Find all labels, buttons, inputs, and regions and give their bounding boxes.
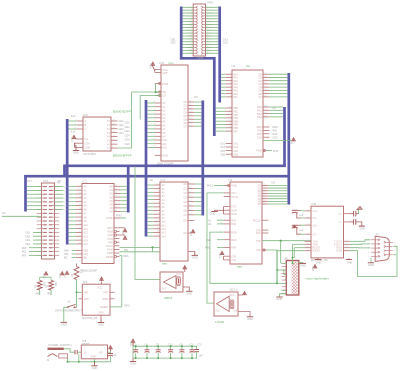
power VCC arrow R1 — [43, 272, 48, 279]
svg-text:CTS: CTS — [231, 206, 236, 209]
wire RWB to RAM WE — [120, 249, 161, 252]
IC3 G2A G2B to ground — [73, 143, 79, 154]
wires PAD right to bus — [206, 7, 219, 53]
svg-text:CE1: CE1 — [125, 121, 131, 125]
wire SYNC/RW to RAM — [120, 246, 161, 252]
label IC3 — [83, 113, 88, 117]
bypass capacitor rail top and bottom — [133, 346, 196, 358]
wire RESB to MAX705 RESET — [120, 255, 129, 307]
power VCC arrow 4MHz osc — [183, 266, 187, 273]
svg-text:A1: A1 — [162, 106, 166, 109]
svg-text:A4: A4 — [84, 201, 88, 204]
U3 control pins RES IRQ RW CS — [257, 126, 278, 139]
capacitor C14 at C2+/C2- polarized — [292, 225, 305, 234]
svg-text:IC1: IC1 — [83, 180, 88, 184]
svg-text:C17: C17 — [27, 179, 32, 183]
svg-text:NC: NC — [2, 211, 6, 215]
svg-text:PFO: PFO — [103, 292, 108, 295]
svg-text:D3: D3 — [184, 196, 188, 199]
svg-text:A11: A11 — [84, 228, 89, 231]
svg-text:Y1: Y1 — [107, 123, 111, 127]
MAX232 pins C1+ C1- C2+ C2- — [305, 209, 318, 236]
svg-text:G2B: G2B — [85, 146, 90, 150]
IC2 data pins D0-D7 — [184, 101, 202, 129]
svg-text:Y6: Y6 — [107, 142, 111, 146]
svg-text:D0: D0 — [272, 181, 276, 185]
MAX232 pins V+ V- — [339, 212, 350, 224]
svg-text:74LS138N: 74LS138N — [83, 152, 96, 156]
IC1 data pins D0-D7 to data bus — [110, 185, 127, 214]
svg-text:A5: A5 — [84, 205, 88, 208]
QG2 GND wire — [238, 312, 253, 321]
U1 pin TXD wire to MAX232 T1IN — [256, 240, 311, 263]
IC U1 ACIA 6551 — [230, 182, 262, 264]
capacitor C3 — [133, 343, 138, 359]
svg-text:1uF: 1uF — [199, 355, 204, 358]
bus: U3/U1 data vertical — [287, 73, 290, 205]
IC1 pins NMIB IRQB BE — [64, 250, 88, 260]
power VCC arrow IC2 — [150, 62, 155, 71]
IC2 GND pin — [155, 154, 168, 158]
U1 pin RXCLK — [253, 219, 269, 222]
svg-text:CS1: CS1 — [231, 259, 236, 262]
svg-text:A3: A3 — [162, 195, 166, 198]
label micro-vga header — [306, 277, 329, 281]
svg-text:D4: D4 — [184, 201, 188, 204]
svg-text:CE4: CE4 — [119, 131, 125, 135]
svg-text:RESB: RESB — [106, 256, 113, 259]
svg-text:RWB: RWB — [107, 252, 113, 255]
svg-text:GND: GND — [316, 262, 322, 265]
wire R1 R2 tops — [40, 276, 51, 278]
U1 pin RES — [206, 239, 237, 242]
svg-text:C1-: C1- — [313, 216, 317, 220]
svg-text:VCC: VCC — [290, 139, 293, 144]
label U3 — [232, 64, 236, 68]
MAX232 pins T1IN T2IN R1OUT R2OUT — [305, 240, 322, 253]
svg-text:PHI2: PHI2 — [231, 185, 237, 188]
svg-text:D7: D7 — [184, 214, 188, 217]
U3 pins PA0-PA7 with stubs to PAD right bus — [221, 73, 238, 99]
U3 pin PHI2 — [256, 149, 279, 153]
svg-text:PAD: PAD — [208, 1, 215, 5]
IC IC5 MAX3232 — [311, 206, 344, 258]
svg-text:D7: D7 — [184, 125, 188, 128]
label SV1 — [43, 179, 49, 183]
svg-text:C10: C10 — [112, 354, 117, 357]
bus: data bus horizontal — [65, 164, 286, 167]
svg-text:W65C02S6P: W65C02S6P — [82, 269, 98, 273]
svg-text:CS2: CS2 — [273, 136, 278, 139]
svg-text:WDI: WDI — [84, 298, 89, 301]
wire green vertical PHI2 net to 4MHz osc — [135, 167, 160, 280]
svg-text:D0: D0 — [184, 183, 188, 186]
svg-text:GND: GND — [92, 366, 98, 370]
power VCC arrow IC1 RDY — [120, 228, 127, 235]
svg-text:R/W: R/W — [205, 247, 211, 250]
svg-text:GND: GND — [73, 151, 79, 155]
svg-text:U1: U1 — [229, 178, 233, 182]
svg-text:4: 4 — [368, 252, 370, 254]
DB9 GND wire — [368, 258, 374, 267]
label $E000-$FFFF — [113, 154, 132, 158]
wire IC2 CE stub — [140, 96, 161, 120]
wire CE6 net from IC3 Y7 to IC2 OE — [118, 84, 162, 149]
svg-text:RS1: RS1 — [231, 219, 236, 222]
svg-text:SV1: SV1 — [43, 179, 49, 183]
U1 pins CS0 CS1 to VCC — [219, 251, 237, 262]
bus: address bus horizontal — [24, 175, 290, 178]
svg-text:RS0: RS0 — [231, 223, 236, 226]
svg-text:D6: D6 — [110, 207, 114, 210]
MAX705 pins PFO WDO — [102, 292, 114, 302]
label A15 — [71, 130, 76, 134]
label $0000-$1FFF — [113, 110, 131, 114]
IC3 output pins Y0-Y7 with CE labels — [107, 119, 124, 150]
svg-text:D4: D4 — [110, 200, 114, 203]
svg-text:WDO: WDO — [102, 298, 108, 301]
RAM GND pin — [188, 251, 198, 259]
svg-text:uart: uart — [237, 265, 242, 269]
svg-text:Y7: Y7 — [107, 146, 111, 150]
svg-text:1uF: 1uF — [299, 214, 304, 217]
wire R1OUT to micro-vga — [294, 247, 304, 249]
svg-text:SWITCH-MOMENTARY-N: SWITCH-MOMENTARY-N — [55, 310, 83, 313]
svg-text:CE: CE — [162, 94, 166, 98]
svg-text:R/W: R/W — [231, 247, 237, 250]
svg-text:VCC: VCC — [177, 274, 182, 276]
label via — [246, 64, 250, 68]
oscillator QG2 1.8432MHz — [214, 292, 238, 316]
svg-text:CA2: CA2 — [223, 41, 229, 45]
IC IC4 MAX705 — [82, 284, 110, 315]
svg-text:D7: D7 — [110, 211, 114, 214]
svg-text:IC7: IC7 — [161, 178, 166, 182]
svg-text:CE4: CE4 — [125, 133, 131, 137]
label IC4 — [83, 280, 88, 284]
svg-text:3K3: 3K3 — [54, 282, 57, 287]
svg-text:ram: ram — [162, 262, 168, 266]
svg-text:CS2: CS2 — [257, 136, 262, 139]
svg-text:A8: A8 — [84, 216, 88, 219]
svg-text:R3: R3 — [71, 273, 74, 277]
svg-text:CA2: CA2 — [220, 146, 225, 149]
svg-text:VCC: VCC — [150, 63, 153, 68]
svg-text:CA1: CA1 — [233, 143, 238, 146]
svg-text:7805T: 7805T — [82, 342, 90, 346]
svg-text:PHI2: PHI2 — [107, 249, 113, 252]
svg-text:VCC: VCC — [219, 252, 222, 257]
IC1 address pins A0-A15 from bus — [69, 185, 89, 246]
svg-text:PHI2I: PHI2I — [107, 217, 114, 220]
label D0 near U1 data bus — [272, 181, 276, 185]
svg-text:GND: GND — [162, 154, 168, 158]
power VCC arrow RAM CS2 — [183, 230, 195, 237]
svg-text:S1: S1 — [68, 301, 72, 304]
svg-text:CB1: CB1 — [233, 150, 238, 153]
capacitor C5 — [156, 343, 161, 359]
svg-text:VCC: VCC — [64, 272, 67, 277]
svg-text:A1: A1 — [162, 188, 166, 191]
svg-text:A11: A11 — [162, 224, 167, 227]
svg-text:RES: RES — [125, 305, 130, 308]
svg-text:Y0: Y0 — [107, 119, 111, 123]
svg-text:VPB: VPB — [108, 241, 113, 244]
svg-text:CB1: CB1 — [25, 232, 30, 235]
svg-text:CS: CS — [183, 232, 187, 235]
svg-text:A0: A0 — [57, 181, 61, 185]
svg-text:A14: A14 — [162, 235, 167, 238]
bus: U3 RS vertical — [283, 107, 286, 167]
svg-text:Y3: Y3 — [107, 131, 111, 135]
switch to ground wire — [61, 307, 68, 326]
svg-text:VCC: VCC — [97, 287, 102, 290]
svg-text:A12: A12 — [84, 232, 89, 235]
svg-text:A8: A8 — [162, 213, 166, 216]
svg-text:D0: D0 — [110, 186, 114, 189]
svg-text:A13: A13 — [71, 114, 76, 118]
svg-text:Y5: Y5 — [107, 139, 111, 143]
svg-text:A8: A8 — [162, 132, 166, 135]
regulator output wire with VCC — [108, 346, 113, 353]
label 1.8432 — [215, 320, 225, 324]
label CA1 CA2 — [223, 38, 229, 45]
svg-text:R2OUT: R2OUT — [313, 250, 322, 253]
connector X2 DB9 — [368, 236, 396, 261]
svg-text:$E000-$FFFF: $E000-$FFFF — [113, 154, 132, 158]
connector SV1 dual-row — [37, 183, 60, 259]
capacitor C17 on V- — [350, 219, 365, 231]
micro-vga GND right — [299, 263, 306, 268]
svg-text:Y2: Y2 — [107, 127, 111, 131]
U1 pin RXD — [210, 230, 277, 283]
svg-text:RTS: RTS — [256, 232, 261, 235]
svg-text:GND: GND — [368, 263, 374, 267]
svg-text:XTLI: XTLI — [231, 192, 237, 195]
svg-text:A1: A1 — [84, 189, 88, 192]
capacitor C6 — [179, 343, 184, 359]
micro-vga top wires — [292, 244, 295, 264]
capacitor C4 — [145, 343, 150, 359]
label IC8 — [82, 339, 87, 343]
svg-text:GND: GND — [98, 323, 104, 327]
svg-text:CA2: CA2 — [233, 146, 238, 149]
power VCC arrow IC1 SOB — [120, 235, 127, 239]
label CB1 CB2 — [171, 38, 177, 45]
connector J1 power jack — [47, 348, 68, 362]
svg-text:C2-: C2- — [313, 232, 317, 236]
svg-text:D7: D7 — [258, 203, 262, 206]
svg-text:VCC: VCC — [59, 273, 62, 278]
svg-text:VCC: VCC — [43, 273, 46, 278]
svg-text:Y4: Y4 — [107, 135, 111, 139]
svg-text:A11: A11 — [162, 143, 167, 146]
U3 data pins D0-D7 to data bus — [259, 73, 288, 99]
svg-text:PA7: PA7 — [233, 96, 238, 99]
svg-text:CE1: CE1 — [119, 119, 125, 123]
svg-text:RESET: RESET — [100, 306, 109, 309]
svg-text:A10: A10 — [162, 221, 167, 224]
bus: PAD left vertical — [180, 7, 183, 60]
svg-text:via: via — [246, 64, 250, 68]
svg-text:D3: D3 — [110, 196, 114, 199]
svg-text:RS3: RS3 — [257, 116, 262, 119]
svg-text:CA1: CA1 — [220, 143, 225, 146]
label D0 at IC2 data bus — [194, 95, 198, 99]
svg-text:U3: U3 — [232, 64, 236, 68]
capacitor C13 — [168, 343, 173, 359]
svg-text:GND: GND — [277, 297, 283, 301]
svg-text:C: C — [85, 127, 87, 131]
svg-text:NMI: NMI — [22, 247, 27, 250]
wire jack to regulator with capacitor C9 — [64, 349, 82, 362]
svg-text:1 8432: 1 8432 — [215, 320, 225, 324]
svg-text:D5: D5 — [184, 205, 188, 208]
svg-text:CE5: CE5 — [125, 138, 131, 142]
svg-text:A10: A10 — [84, 224, 89, 227]
power section ground rail — [67, 359, 111, 363]
IC IC1 CPU W65C02 — [82, 184, 114, 264]
capacitor C16 on V+ — [350, 206, 362, 216]
IC2 pin PGM — [155, 82, 168, 86]
svg-text:A5: A5 — [162, 121, 166, 124]
label uart — [237, 265, 242, 269]
svg-text:6: 6 — [394, 242, 396, 244]
svg-text:D2: D2 — [110, 193, 114, 196]
svg-text:DSR: DSR — [231, 209, 236, 212]
capacitor C13 at C1+/C1- — [292, 210, 305, 218]
svg-text:MAX705_P8: MAX705_P8 — [82, 316, 98, 320]
label X2 — [376, 233, 380, 237]
svg-text:CB2: CB2 — [25, 235, 30, 238]
U1 pins CTS DSR DCD to ground — [210, 206, 237, 217]
label U1 — [229, 178, 233, 182]
IC2 pins OE CE — [155, 90, 167, 97]
micro-vga GND bottom — [276, 294, 286, 301]
bus: jog joining data bus to address bus — [63, 165, 66, 178]
svg-text:CB2: CB2 — [171, 41, 177, 45]
svg-text:A13: A13 — [162, 232, 167, 235]
svg-text:BE: BE — [84, 257, 88, 260]
wires SV1 CB1 CB2 CE1 CE4 rows — [25, 232, 41, 246]
svg-text:PHI2: PHI2 — [116, 215, 122, 218]
svg-text:A9: A9 — [84, 220, 88, 223]
svg-text:J1: J1 — [47, 359, 50, 362]
capacitor C7 — [190, 343, 195, 359]
label W65C02S6P — [82, 269, 98, 273]
label MAX705 — [82, 316, 98, 320]
power VCC arrow QG2 — [238, 291, 246, 295]
svg-text:OUT: OUT — [216, 310, 221, 312]
IC3 enable pins G1 G2A G2B — [77, 137, 90, 149]
svg-text:CE1: CE1 — [25, 239, 30, 242]
svg-text:RES: RES — [124, 255, 129, 258]
svg-text:C12: C12 — [198, 344, 203, 347]
svg-text:CE4: CE4 — [25, 243, 30, 246]
svg-text:D1: D1 — [184, 188, 188, 191]
svg-text:SYNC: SYNC — [106, 245, 113, 248]
label rom — [169, 61, 175, 65]
svg-text:RES: RES — [231, 239, 236, 242]
wire 1.8432 osc OUT to U1 XTLI — [207, 193, 214, 303]
U3 pins PB0-PB7 with stubs to PAD left bus — [216, 107, 239, 134]
wire NC — [2, 211, 42, 216]
svg-text:IRQ: IRQ — [22, 251, 27, 254]
svg-text:R1: R1 — [34, 284, 37, 288]
svg-text:C13: C13 — [168, 343, 173, 346]
wire DB9 loop to R2IN — [350, 246, 397, 276]
U3 pins CA1 CA2 CB1 CB2 — [220, 143, 238, 157]
svg-text:C1+: C1+ — [313, 209, 318, 213]
IC IC2 EPROM 27C64 — [161, 65, 188, 161]
label A0 near RAM — [150, 178, 154, 182]
ground bypass rail — [130, 358, 136, 365]
svg-text:GND: GND — [347, 262, 353, 265]
regulator GND to ground symbol — [91, 362, 97, 370]
svg-text:VPP: VPP — [162, 71, 167, 75]
label 4MHZ — [164, 296, 172, 300]
svg-text:PB7: PB7 — [233, 130, 238, 133]
label JP1 — [284, 256, 289, 260]
capacitor C9 lower wire — [78, 354, 80, 361]
svg-text:VCC: VCC — [230, 295, 235, 297]
svg-text:GND: GND — [300, 264, 306, 268]
wire DB9 right pin loop bottom — [394, 254, 397, 256]
bus: vertical IC1 data — [127, 165, 130, 213]
svg-text:RXCLK: RXCLK — [253, 219, 261, 222]
oscillator QG1 4MHz — [160, 272, 183, 292]
svg-text:DCD: DCD — [231, 213, 237, 216]
IC2 pins VCC VPP — [155, 68, 168, 75]
bus: vertical IC2/RAM address — [145, 100, 148, 237]
svg-text:D5: D5 — [110, 204, 114, 207]
svg-text:A0: A0 — [273, 106, 277, 110]
capacitor C10 at regulator output — [108, 352, 117, 362]
svg-text:A15: A15 — [71, 130, 76, 134]
MAX705 pin RESET wire — [100, 305, 130, 310]
svg-text:IRQ: IRQ — [257, 249, 261, 252]
svg-text:GND: GND — [186, 291, 192, 295]
IC3 input pins A B C from address bus — [69, 119, 87, 131]
svg-text:A4: A4 — [162, 199, 166, 202]
svg-text:MR: MR — [84, 292, 88, 295]
svg-text:D0: D0 — [194, 95, 198, 99]
label NMI under R1 — [36, 292, 41, 295]
label GND under PAD — [198, 56, 204, 60]
svg-text:5: 5 — [368, 256, 370, 258]
label A0 near IC1 — [57, 181, 61, 185]
svg-text:V-: V- — [340, 220, 343, 224]
resistor R2 IRQ pull-up — [45, 277, 57, 295]
power VCC arrow MAX232 — [312, 265, 317, 272]
svg-text:B: B — [85, 123, 87, 127]
svg-text:A0: A0 — [84, 186, 88, 189]
bus: vertical IC2/RAM data — [201, 101, 204, 216]
IC IC8 7805 regulator — [81, 345, 107, 359]
connector JP1 micro-vga header — [282, 261, 299, 296]
svg-text:CB2: CB2 — [233, 153, 238, 156]
IC RAM 62256 — [160, 182, 188, 261]
micro-vga left wires — [276, 251, 287, 291]
bus: PAD right vertical to U3 PA — [218, 7, 221, 103]
label IC5 — [312, 202, 317, 206]
svg-text:VCC: VCC — [190, 231, 193, 236]
svg-text:IC5: IC5 — [312, 202, 317, 206]
svg-text:A5: A5 — [162, 202, 166, 205]
svg-text:BE: BE — [64, 257, 68, 260]
svg-text:micro-vga header: micro-vga header — [306, 277, 329, 281]
RAM data pins IO0-IO7 to data bus — [184, 183, 202, 217]
